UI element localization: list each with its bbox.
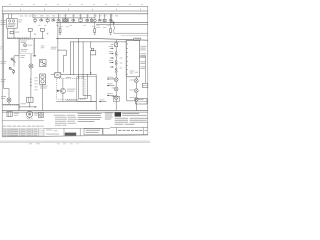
- wire squiggle lead: [113, 24, 114, 34]
- fuse F3: [46, 19, 49, 21]
- wire right collector drop: [95, 75, 97, 102]
- label SW1: [1, 19, 6, 22]
- title block left table: [2, 129, 44, 137]
- wire D1 left lead: [51, 74, 55, 76]
- switch S3 contact 2: [115, 61, 117, 63]
- wire label column: [34, 77, 37, 80]
- wire L9 to ground bus: [135, 101, 137, 110]
- label flasher note: [51, 46, 57, 49]
- label lighting sw: [21, 54, 26, 57]
- wire feed right lower: [121, 34, 148, 36]
- wire horizontal collector: [61, 74, 96, 76]
- wire L1 to connector CN3: [30, 76, 32, 97]
- terminal ends: [34, 34, 35, 35]
- row density marks: [63, 20, 68, 22]
- wire harness drop c: [86, 75, 88, 99]
- contact S2b: [52, 19, 54, 21]
- fuse F1: [10, 31, 14, 33]
- wire A1 internal riser: [62, 79, 64, 89]
- terminal mark A1: [57, 90, 59, 92]
- border left: [1, 7, 3, 137]
- lamp L7: [134, 79, 138, 83]
- signature scribble: [46, 129, 52, 132]
- wire K2 drop: [90, 55, 92, 75]
- wire L1 upper lead: [30, 54, 32, 64]
- wire long left rail: [4, 14, 9, 98]
- label CN3: [21, 102, 27, 105]
- ground bus upper: [2, 109, 148, 111]
- relay K1 dashed box: [20, 40, 34, 54]
- amplifier unit A1 dashed box: [57, 79, 85, 100]
- wire bottom feed arrow: [19, 106, 37, 108]
- wire harness drop b: [82, 42, 84, 96]
- wire U1 return: [127, 77, 136, 101]
- label courtesy: [1, 78, 6, 81]
- wire K2 feed: [90, 42, 92, 48]
- fuse F2: [34, 19, 36, 21]
- label A1 bottom: [66, 99, 78, 102]
- resistor R1: [59, 21, 61, 28]
- switch S3 coil: [115, 43, 118, 47]
- contact S2g: [109, 19, 111, 21]
- contact S2h: [111, 21, 113, 23]
- labels U1 pins: [140, 45, 146, 48]
- drawing office box: [84, 129, 102, 135]
- wire center drop: [57, 22, 59, 72]
- wire Z route: [58, 50, 67, 73]
- rail tick labels: [0, 46, 2, 49]
- approval stamp: [65, 133, 76, 136]
- horn H1: [27, 111, 33, 117]
- wire return line: [56, 101, 96, 103]
- contact S2f: [98, 19, 100, 21]
- arrow wiper b: [109, 61, 113, 63]
- wire Q1 base lead: [59, 90, 61, 92]
- labels below component row: [38, 24, 41, 27]
- title block center: [44, 127, 110, 129]
- diode block D1: [55, 73, 61, 78]
- wire stop bus: [70, 41, 126, 43]
- note block d: [115, 117, 128, 120]
- label dimmer: [1, 60, 7, 63]
- wire nested bracket b: [83, 96, 91, 102]
- ignition switch SW1: [7, 19, 18, 29]
- page bottom shadow: [0, 140, 150, 143]
- wire S3 drop: [115, 73, 117, 78]
- arrow wiper a: [109, 53, 113, 55]
- note block b: [78, 112, 102, 115]
- parts list divider: [2, 120, 44, 122]
- title strip right: [110, 126, 148, 128]
- wire L7 feed: [135, 77, 137, 79]
- wire J1 drop: [41, 31, 43, 38]
- wire horn bus: [56, 39, 148, 41]
- junction box J1: [40, 28, 44, 31]
- relay K2: [91, 48, 94, 50]
- wire stub y55.8: [14, 55, 19, 57]
- wire L6 to ground bus: [115, 100, 117, 111]
- contact S2d: [72, 19, 74, 21]
- contact S2e: [86, 19, 88, 21]
- arrow into amplifier b: [82, 77, 84, 79]
- bus label plate: [134, 38, 141, 40]
- switch S3 contact 3: [115, 68, 117, 70]
- signal arrow out a: [107, 78, 115, 80]
- labels resistor row: [96, 26, 100, 29]
- wire drops to ground bus: [18, 105, 20, 110]
- maker logo block: [115, 112, 121, 116]
- connector CN3: [27, 97, 33, 102]
- wire battery bus: [2, 10, 148, 12]
- label L2: [1, 95, 6, 98]
- fuse F5: [90, 19, 93, 21]
- labels left of bus3: [20, 15, 23, 18]
- label A1 top: [66, 76, 71, 79]
- wire CN3 drop: [29, 102, 31, 107]
- wire horn feed right: [114, 32, 148, 34]
- lamp L3: [94, 19, 97, 22]
- wire U1 to CN2: [140, 56, 146, 83]
- wire tail bus: [96, 24, 148, 26]
- wire Q1 emitter lead: [62, 94, 64, 102]
- terminal strip TB1: [7, 37, 30, 39]
- parts list row: [3, 125, 6, 128]
- connector CN5: [136, 98, 147, 104]
- note block c: [105, 112, 113, 115]
- wire bar extension: [30, 37, 44, 39]
- splice ticks: [30, 78, 32, 80]
- wire dashed U1 boundary: [124, 41, 126, 77]
- lamp L8: [134, 89, 138, 93]
- wire K1 side drop: [33, 38, 35, 55]
- switch S3 contact 1: [115, 52, 117, 54]
- label right of SW1: [18, 19, 22, 22]
- flasher unit K3: [40, 74, 46, 84]
- connector CN4: [7, 112, 12, 117]
- buzzer B1: [39, 112, 44, 117]
- lamp L6: [114, 96, 118, 100]
- wire harness drop 0b: [73, 42, 75, 75]
- lamp L1: [29, 64, 33, 68]
- arrow wiper d: [110, 66, 114, 68]
- wire accessory bus: [33, 14, 95, 18]
- wire harness drop 0a: [69, 42, 71, 75]
- transistor Q1: [60, 88, 65, 93]
- wire left drop b: [13, 28, 15, 38]
- label S3 positions: [110, 43, 113, 46]
- arrow K2 drop: [90, 72, 92, 74]
- wire lighting bus: [56, 21, 148, 23]
- label H1: [34, 112, 38, 115]
- drawing number text: [118, 130, 122, 131]
- relay K5 contact box: [40, 60, 47, 67]
- relay K4: [63, 19, 69, 22]
- wire drop TB1 to ground rail: [18, 39, 20, 111]
- terminal mark: [33, 55, 36, 57]
- signal arrow out c: [107, 95, 115, 97]
- contact S2a: [40, 19, 42, 21]
- ground bus lower: [2, 111, 148, 113]
- fuse F4: [79, 19, 82, 21]
- border top: [2, 6, 148, 8]
- note block a: [54, 114, 66, 117]
- switch SW2: [9, 67, 11, 69]
- border right: [147, 7, 149, 135]
- label right of K1: [41, 45, 45, 48]
- arrow wiper pre: [110, 47, 114, 49]
- terminal strip TB2: [3, 104, 20, 106]
- signal arrow out b: [107, 85, 115, 87]
- resistor R3: [110, 21, 112, 28]
- label K3: [40, 85, 48, 88]
- label CN4: [14, 112, 19, 115]
- signal arrow return: [99, 101, 107, 103]
- wire SW1 feed riser: [11, 14, 13, 19]
- labels above component row: [34, 15, 37, 18]
- arrow into amplifier a: [78, 77, 80, 79]
- switch SW2 upper: [11, 58, 13, 60]
- wire SW1 second riser: [8, 14, 10, 19]
- wire L1 lower lead: [30, 68, 32, 76]
- wire left drop a: [7, 28, 9, 38]
- zone ticks inner: [20, 9, 141, 11]
- connector CN2: [143, 83, 148, 87]
- connector ECU U1: [126, 41, 139, 77]
- wire ignition bus: [2, 13, 148, 15]
- label Q1: [67, 88, 75, 91]
- lamp L2: [7, 98, 11, 102]
- arrow wiper c: [110, 57, 114, 59]
- lamp L4: [114, 78, 118, 82]
- wire L2 lower lead: [8, 102, 10, 105]
- wire harness drop a: [78, 42, 80, 98]
- border bottom: [2, 135, 148, 137]
- lamp L9: [134, 98, 138, 102]
- zone tick marks: [9, 3, 143, 6]
- labels mid row: [59, 25, 63, 28]
- resistor R2: [94, 22, 96, 29]
- title table entries: [3, 128, 5, 131]
- fuse F6: [103, 19, 106, 21]
- junction box J0: [28, 28, 32, 31]
- frame around L6: [113, 96, 119, 101]
- wire nested bracket a: [79, 97, 88, 99]
- lamp L5: [114, 87, 118, 91]
- contact S2c: [57, 19, 59, 21]
- joint block outline: [77, 77, 96, 102]
